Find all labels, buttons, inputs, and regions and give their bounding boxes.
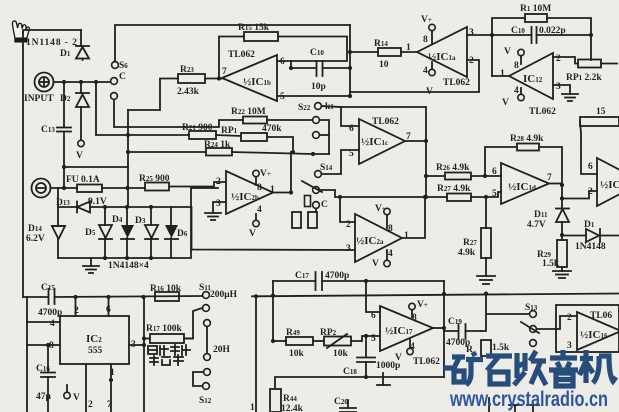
- ground IC12: [562, 94, 578, 101]
- switch S14: [313, 171, 322, 209]
- wire bottom y377: [366, 376, 444, 378]
- potentiometer RP 470k: [241, 133, 267, 141]
- wire S6 top to top bus: [115, 25, 350, 62]
- wire output down: [561, 185, 563, 208]
- wire R26 right to pin6: [471, 175, 501, 177]
- wire IC1d output: [549, 183, 562, 185]
- wire R17 to contact: [184, 338, 193, 340]
- terminal IC17 V-: [407, 340, 413, 355]
- op-amp IC1a: [417, 27, 467, 77]
- node IC1b output: [217, 76, 221, 80]
- timer IC2 555: [60, 316, 129, 364]
- wire left border: [22, 33, 24, 297]
- wire top-left corner: [23, 30, 81, 33]
- wire R21 to RP: [216, 135, 241, 136]
- wire S22 mid contact: [320, 120, 330, 154]
- wire R29 stem: [561, 235, 563, 240]
- capacitor C15: [23, 289, 55, 304]
- wire RP2 to pin5: [351, 336, 380, 341]
- wire R15 right leg: [277, 37, 347, 62]
- wire S13 to IC16: [536, 316, 577, 329]
- wire R28 right leg: [539, 147, 562, 185]
- node diode row dots: [103, 205, 107, 209]
- wire x218 vertical: [192, 207, 356, 250]
- potentiometer RP1 2.2k: [578, 60, 601, 68]
- wire 555 pin2: [75, 297, 77, 316]
- ground R30: [477, 276, 495, 284]
- resistor R21 900: [189, 131, 216, 139]
- terminal IC2a V-: [384, 250, 390, 267]
- wire zener stem: [57, 188, 59, 207]
- wire R44 stem: [275, 377, 366, 389]
- terminal IC1a V-: [429, 62, 435, 76]
- wire IC2a feedback loop: [340, 197, 355, 222]
- inductor link: [206, 326, 208, 353]
- box IC16 outline: [556, 305, 619, 352]
- wire rail to fuse line: [191, 188, 218, 207]
- wire S22 top to feedback: [322, 106, 342, 107]
- wire IC17 pin6 feedback: [366, 281, 380, 312]
- wire vertical node x350: [349, 25, 351, 96]
- wire R30 stem: [485, 197, 487, 228]
- wire IC1a pin2 feedback loop: [350, 60, 479, 92]
- wire R21 left: [128, 134, 189, 136]
- switch S6: [111, 62, 119, 100]
- capacitor C16: [41, 345, 55, 412]
- wire RP right down: [267, 137, 293, 152]
- resistor R27 4.9k: [447, 194, 471, 202]
- wire left column x27: [26, 297, 28, 412]
- resistor R17 100k: [150, 334, 184, 343]
- wire IC2b output up to bus: [273, 152, 291, 193]
- capacitor C19 4700p: [444, 324, 481, 339]
- resistor R1 10M: [525, 14, 547, 22]
- wire R17 right up: [184, 308, 202, 339]
- wire IC1c pin5 to S14: [322, 150, 359, 174]
- watermark CJK ji: [580, 350, 617, 383]
- switch S22: [313, 103, 322, 139]
- wire jack J1 to S6: [54, 81, 112, 83]
- op-amp IC1d: [501, 163, 549, 204]
- terminal IC1a V+: [429, 24, 435, 44]
- wire RP1 right: [601, 63, 617, 65]
- capacitor C18 1000p: [357, 336, 375, 377]
- diode D4: [121, 207, 134, 258]
- resistor R25 900: [145, 183, 169, 191]
- wire IC12 pin2 to RP1: [553, 57, 578, 64]
- op-amp IC1b: [222, 55, 277, 101]
- wire D1 stem: [80, 30, 82, 46]
- wire IC1a pin3 out: [467, 34, 492, 36]
- wire S14 mid to R27 line: [320, 190, 341, 197]
- wire bottom edge stub: [488, 398, 490, 412]
- ground IC2b: [205, 213, 221, 220]
- capacitor C10 0.022p: [492, 27, 591, 43]
- wire 555 pin8: [27, 344, 60, 346]
- resistor R 1.5k vertical: [481, 340, 491, 356]
- node fuse line dots: [62, 186, 66, 190]
- wire bus 555 top: [55, 296, 203, 297]
- op-amp IC1c: [359, 119, 405, 164]
- capacitor C13: [57, 82, 71, 188]
- capacitor C17 4700p: [273, 272, 444, 290]
- jack J2: [32, 179, 51, 198]
- label pulse generator (Chinese): [148, 345, 190, 365]
- resistor R24 1k: [206, 148, 232, 156]
- resistor R28 4.9k feedback: [517, 144, 539, 151]
- wire node x426 vertical: [425, 141, 427, 197]
- wire R14 to IC1a: [401, 51, 417, 53]
- diode D2: [76, 82, 89, 140]
- wire C19 to S13: [481, 314, 530, 331]
- wire S22 bottom stub: [319, 134, 329, 136]
- wire x96 branch: [96, 82, 128, 135]
- potentiometer RP2 10k: [324, 337, 351, 346]
- watermark CJK shou: [514, 351, 546, 385]
- wire R49 to RP2: [313, 340, 324, 342]
- terminal V- bottom left: [64, 385, 70, 399]
- op-amp IC2a: [355, 214, 402, 262]
- wire IC12 pin3 to ground: [553, 85, 570, 94]
- watermark CJK shi: [486, 356, 512, 384]
- terminal IC17 V+: [409, 303, 415, 317]
- wire S12 wiring: [193, 372, 204, 386]
- resistor R44 12.4k vertical: [270, 389, 281, 412]
- wire to IC13 pin2: [562, 191, 597, 199]
- hand cursor icon: [12, 21, 29, 42]
- op-amp IC2b: [226, 171, 273, 214]
- wire R1 right leg: [547, 18, 591, 60]
- diode D6: [165, 207, 178, 258]
- wire R27 line: [340, 196, 447, 198]
- wire R28 left leg: [485, 147, 517, 176]
- node jack line dots: [62, 80, 66, 84]
- wire 555 pin6: [108, 297, 110, 316]
- wire fuse to R25: [102, 187, 145, 189]
- ground R29: [553, 271, 571, 278]
- wire x256 vertical: [255, 296, 257, 412]
- wire bus y295 long: [252, 294, 619, 297]
- wire x128 vertical: [127, 110, 129, 207]
- resistor R22 10M: [243, 117, 267, 124]
- diode D1 1N4148: [562, 229, 619, 242]
- wire x444 vertical: [443, 281, 445, 377]
- wire IC1c output: [405, 140, 426, 142]
- terminal IC12 V+: [518, 49, 524, 64]
- wiper S13: [521, 322, 539, 333]
- terminal IC2b V-: [253, 214, 259, 227]
- terminal IC2b V+: [253, 170, 259, 185]
- wire R23 left leg: [128, 79, 178, 111]
- diode D3: [145, 207, 158, 258]
- resistor R23: [178, 74, 205, 83]
- wire 555 pin4: [27, 321, 60, 323]
- ground diode rail: [83, 258, 99, 273]
- zener D14: [52, 207, 65, 258]
- wire R25 to IC2b: [169, 182, 226, 187]
- resistor R29 1.5k: [557, 240, 567, 267]
- wiper S14: [302, 181, 322, 192]
- wire IC2b pin3 to ground: [213, 202, 226, 213]
- wire IC1b pin5: [277, 95, 349, 97]
- op-amp IC16: [577, 312, 619, 350]
- resistor R30 4.9k: [481, 228, 491, 258]
- terminal V- below D2: [78, 140, 84, 146]
- wire R14 left: [350, 51, 378, 53]
- terminal IC12 V-: [518, 88, 524, 101]
- wire R17 left: [144, 338, 150, 340]
- input jack J1: [35, 73, 54, 92]
- op-amp IC12: [509, 53, 553, 99]
- wire x273 vertical input node: [272, 281, 274, 341]
- wire x144 vertical: [143, 297, 145, 412]
- zener D11: [556, 209, 569, 236]
- wire diode bottom rail: [58, 207, 191, 258]
- switch S12 contacts: [203, 354, 211, 390]
- capacitor C10 10p: [317, 61, 351, 76]
- op-amp IC13 right edge: [597, 158, 619, 206]
- resistor R26 4.9k: [445, 173, 471, 180]
- wire 555 bottom pins: [85, 364, 87, 412]
- switch S11 contacts: [203, 292, 211, 327]
- diode D1: [76, 46, 89, 60]
- wire R49 left: [273, 340, 286, 342]
- op-amp IC17: [380, 306, 433, 351]
- resistor top-right edge: [580, 117, 619, 126]
- wire 555 pin3 out: [129, 344, 144, 346]
- wire R22 right: [267, 119, 313, 121]
- wire R1 left leg: [492, 18, 525, 76]
- wire IC2a output: [402, 197, 425, 238]
- wire IC12 input: [492, 75, 509, 77]
- resistor R16 10k: [155, 292, 179, 301]
- wire pin6 to C10: [291, 61, 316, 68]
- wire IC17 output: [433, 327, 444, 329]
- wire R23 to IC1b output: [205, 78, 222, 80]
- diode D5: [99, 207, 112, 258]
- terminal IC2a V+: [384, 208, 390, 228]
- wire top-right resistor leg: [580, 122, 597, 175]
- switch S13: [530, 311, 537, 347]
- capacitor C20: [340, 400, 356, 412]
- wire IC1c feedback: [341, 107, 426, 141]
- wire R15 left leg: [219, 37, 244, 77]
- zener D13: [58, 202, 191, 213]
- wire R26 left: [426, 175, 445, 177]
- resistor R14: [378, 48, 401, 56]
- watermark CJK yin: [549, 350, 578, 386]
- component bottom edge box: [509, 405, 539, 412]
- fuse FU 0.1A: [77, 185, 102, 193]
- resistor R49 10k: [286, 337, 313, 345]
- wire S6 bottom to R22: [114, 100, 243, 128]
- terminal T mark below C18: [377, 373, 390, 385]
- watermark CJK kuang: [444, 352, 483, 385]
- wire bus y152: [128, 151, 206, 153]
- resistor R15 feedback: [244, 32, 278, 41]
- wire J2 to fuse: [51, 187, 78, 189]
